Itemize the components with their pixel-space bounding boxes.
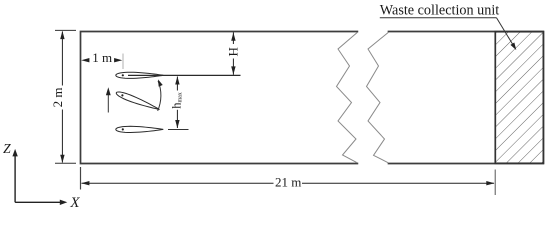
svg-text:2 m: 2 m bbox=[50, 87, 65, 107]
svg-text:H: H bbox=[226, 47, 241, 56]
svg-text:21 m: 21 m bbox=[275, 175, 301, 190]
svg-text:Z: Z bbox=[3, 141, 11, 156]
svg-text:X: X bbox=[69, 195, 80, 211]
svg-text:1 m: 1 m bbox=[92, 50, 112, 65]
svg-text:Waste collection unit: Waste collection unit bbox=[380, 3, 499, 19]
svg-text:hmax: hmax bbox=[170, 92, 184, 109]
